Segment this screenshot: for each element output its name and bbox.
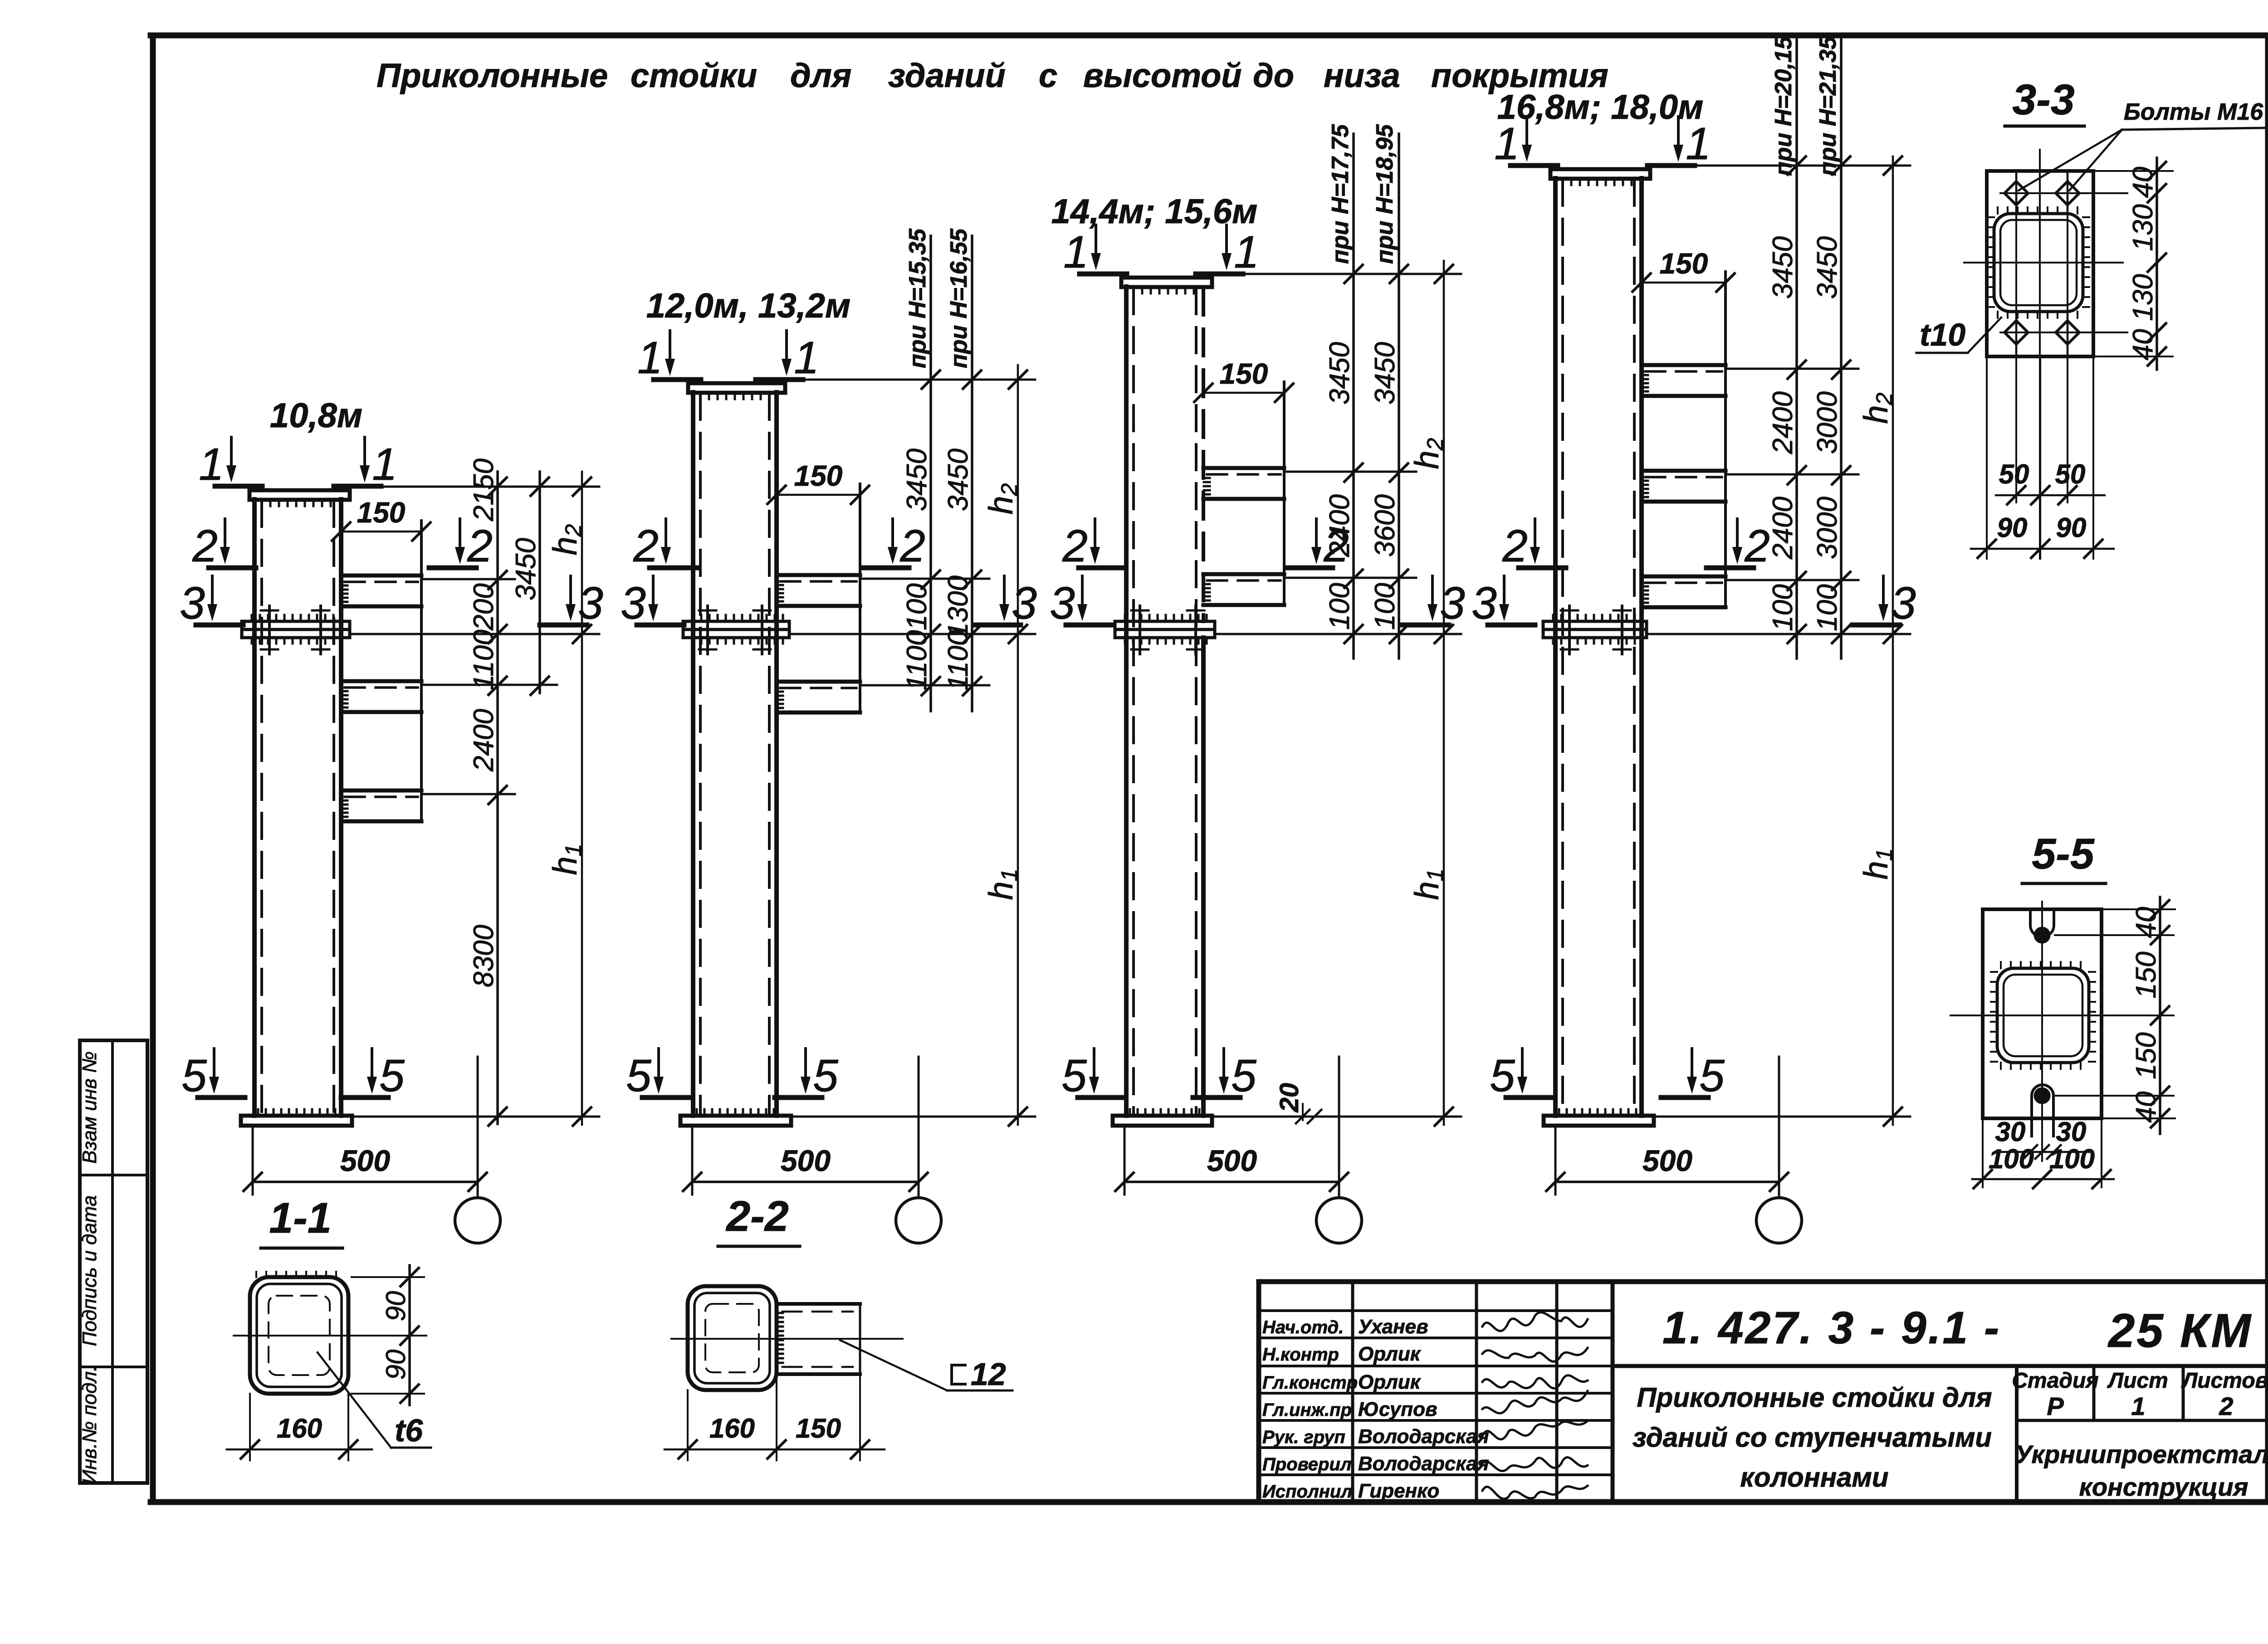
svg-text:3450: 3450 (943, 449, 974, 511)
column K4(16.8m) dimension line h1 h2 (1892, 156, 1894, 1125)
svg-text:5: 5 (813, 1050, 838, 1101)
svg-text:1300: 1300 (943, 576, 974, 638)
svg-text:100: 100 (1812, 584, 1843, 631)
section 5-5 base plate (1983, 909, 2102, 1118)
svg-text:2400: 2400 (1767, 497, 1799, 560)
svg-text:2: 2 (467, 521, 493, 571)
svg-text:Нач.отд.: Нач.отд. (1262, 1317, 1344, 1337)
svg-text:Проверил: Проверил (1262, 1454, 1352, 1474)
column K1(10.8m) section mark 5 (213, 1049, 215, 1079)
svg-text:5-5: 5-5 (2032, 830, 2094, 878)
svg-text:Исполнил: Исполнил (1262, 1482, 1352, 1502)
svg-text:3000: 3000 (1812, 497, 1843, 559)
section 3-3 extension lines (2093, 170, 2173, 172)
section 3-3 flange plate (1987, 171, 2093, 356)
column K2(12m) section mark 5 (804, 1049, 807, 1079)
svg-text:1: 1 (2131, 1392, 2145, 1420)
svg-text:3450: 3450 (1324, 342, 1355, 405)
svg-text:при Н=15,35: при Н=15,35 (904, 228, 931, 368)
column K1(10.8m) section mark 1 (363, 437, 366, 468)
svg-text:1100: 1100 (943, 630, 974, 690)
svg-text:Приколонные стойки для: Приколонные стойки для (1637, 1382, 1992, 1413)
column K1(10.8m) section mark 3 (569, 576, 572, 607)
svg-text:3: 3 (1012, 578, 1037, 629)
section 5-5 extension lines (2102, 908, 2175, 910)
column K1(10.8m) axis circle (455, 1198, 500, 1243)
column K2(12m) splice flange plates (683, 621, 789, 629)
column K1(10.8m) section mark 1 (230, 437, 233, 468)
column K4(16.8m) shaft left wall (1553, 178, 1558, 1116)
section 2-2 center line (671, 1338, 903, 1340)
column K1(10.8m) splice flange plates (242, 621, 350, 629)
svg-text:Листов: Листов (2181, 1369, 2268, 1393)
section 3-3 dims bottom 50 50 (1986, 356, 1988, 559)
svg-text:1: 1 (1494, 118, 1520, 169)
column K2(12m) section mark 5 (657, 1049, 660, 1079)
svg-text:1: 1 (637, 332, 663, 383)
svg-text:160: 160 (709, 1413, 755, 1444)
column K4(16.8m) dimension line 2 (1840, 39, 1843, 659)
section 3-3 dims right 40 130 130 40 (2156, 158, 2158, 370)
column K2(12m) section mark 2 (665, 519, 667, 550)
column K4(16.8m) section mark 3 (1882, 576, 1885, 607)
svg-text:стойки: стойки (631, 57, 757, 94)
svg-text:2: 2 (633, 521, 659, 571)
column K4(16.8m) splice flange plates (1543, 621, 1647, 629)
svg-text:Укрниипроектстал: Укрниипроектстал (2015, 1440, 2268, 1468)
svg-text:Приколонные: Приколонные (376, 57, 608, 94)
column K3(14.4m) dim 150 (1203, 392, 1284, 394)
title block signatures (1482, 1312, 1588, 1331)
column K4(16.8m) section mark 1 (1677, 117, 1680, 147)
section 1-1 dims right 90 90 (408, 1265, 411, 1405)
section 1-1 extension lines (352, 1276, 424, 1278)
svg-text:Стадия: Стадия (2012, 1369, 2098, 1393)
section 5-5 hole lines (2055, 934, 2174, 936)
svg-text:50: 50 (2055, 459, 2086, 489)
svg-text:Уханев: Уханев (1358, 1316, 1428, 1338)
column K3(14.4m) section mark 3 (1431, 576, 1434, 607)
svg-text:3450: 3450 (1812, 236, 1843, 299)
column K4(16.8m) axis circle (1756, 1198, 1802, 1243)
column K2(12m) cap plate (688, 383, 785, 393)
drawing frame border (150, 35, 156, 1502)
svg-text:1100: 1100 (901, 630, 933, 690)
svg-text:1: 1 (199, 439, 224, 490)
column K4(16.8m) dimension line 1 (1795, 39, 1798, 659)
column K3(14.4m) section mark 1 (1225, 225, 1228, 256)
column K4(16.8m) bracket 1 (1642, 363, 1725, 367)
column K4(16.8m) shaft right wall (1639, 178, 1644, 1116)
svg-text:500: 500 (781, 1144, 831, 1177)
svg-text:1-1: 1-1 (269, 1194, 331, 1242)
svg-text:Взам инв №: Взам инв № (78, 1051, 101, 1164)
column K3(14.4m) dimension line h1 h2 (1443, 261, 1445, 1125)
column K1(10.8m) bracket 2 (341, 679, 421, 683)
section 1-1 tube (250, 1277, 348, 1394)
side stamp boxes (80, 1040, 147, 1483)
svg-text:2: 2 (1744, 521, 1770, 571)
column K3(14.4m) dimension line 1 (1352, 134, 1355, 659)
section 5-5 bottom slot (2032, 1085, 2053, 1136)
column K1(10.8m) section mark 3 (211, 576, 214, 607)
section 5-5 dims bottom 100 100 (1982, 1118, 1984, 1187)
svg-text:2: 2 (899, 521, 925, 571)
svg-text:5: 5 (1699, 1050, 1725, 1101)
column K4(16.8m) splice bolts (1568, 606, 1571, 654)
svg-text:100: 100 (1324, 583, 1355, 629)
svg-text:1100: 1100 (468, 629, 499, 690)
column K4(16.8m) section mark 1 (1525, 117, 1528, 147)
svg-text:конструкция: конструкция (2079, 1473, 2248, 1501)
column K3(14.4m) base plate (1113, 1116, 1212, 1126)
column K4(16.8m) section mark 2 (1534, 519, 1536, 550)
column K2(12m) extension lines (785, 379, 1035, 381)
svg-text:12: 12 (971, 1356, 1006, 1392)
svg-text:3: 3 (578, 578, 603, 629)
section 5-5 tube (1997, 968, 2089, 1063)
svg-text:40: 40 (2131, 1092, 2162, 1123)
svg-text:100: 100 (1369, 583, 1401, 629)
svg-text:10,8м: 10,8м (270, 396, 362, 435)
column K3(14.4m) bracket 2 (1203, 572, 1284, 576)
svg-text:150: 150 (2131, 1032, 2162, 1079)
column K4(16.8m) cap plate (1550, 169, 1650, 179)
column K2(12m) dimension line 2 (971, 236, 973, 711)
column K3(14.4m) section mark 1 (1095, 225, 1097, 256)
section 3-3 bolts M16 (2004, 181, 2028, 205)
column K3(14.4m) bracket 1 (1203, 466, 1284, 470)
section 2-2 label channel 12 (952, 1365, 965, 1384)
svg-text:Лист: Лист (2107, 1369, 2168, 1393)
svg-text:3: 3 (180, 578, 205, 629)
section 1-1 dim bottom 160 (249, 1394, 251, 1460)
section 1-1 hidden wall dashes (269, 1296, 330, 1375)
svg-text:25 КМ: 25 КМ (2107, 1304, 2253, 1357)
svg-text:40: 40 (2127, 329, 2159, 361)
column K3 dim 20 (1302, 1104, 1304, 1120)
svg-text:при Н=20,15: при Н=20,15 (1770, 36, 1797, 176)
svg-text:2400: 2400 (468, 709, 499, 772)
svg-text:3000: 3000 (1812, 391, 1843, 454)
column K2(12m) base plate (680, 1116, 791, 1126)
column K2(12m) bracket 2 (777, 680, 860, 684)
title block row lines (1259, 1309, 1613, 1312)
column K1(10.8m) bracket 1 (341, 574, 421, 578)
column K1(10.8m) section mark 2 (224, 519, 226, 550)
svg-text:8300: 8300 (468, 925, 499, 987)
svg-text:150: 150 (1220, 357, 1268, 390)
svg-text:40: 40 (2131, 907, 2162, 938)
svg-text:высотой: высотой (1083, 57, 1242, 94)
column K3(14.4m) dim 500 and axis (1124, 1127, 1126, 1195)
svg-text:5: 5 (181, 1050, 207, 1101)
column K1(10.8m) bracket edge line (420, 521, 423, 821)
svg-text:t6: t6 (395, 1413, 423, 1448)
column K2(12m) section mark 1 (785, 331, 788, 361)
svg-text:2: 2 (1062, 521, 1088, 571)
column K4(16.8m) dim 500 and axis (1554, 1127, 1557, 1195)
svg-text:при Н=18,95: при Н=18,95 (1372, 124, 1398, 264)
svg-text:30: 30 (1995, 1117, 2026, 1147)
svg-text:40: 40 (2127, 167, 2159, 198)
svg-text:100: 100 (1989, 1144, 2034, 1174)
column K4(16.8m) bracket 2 (1642, 469, 1725, 473)
svg-text:200: 200 (468, 583, 499, 630)
svg-text:1: 1 (794, 332, 819, 383)
svg-text:при Н=21,35: при Н=21,35 (1815, 36, 1841, 176)
column K3(14.4m) section mark 2 (1094, 519, 1096, 550)
column K1(10.8m) shaft right wall (339, 499, 343, 1116)
svg-text:3450: 3450 (510, 538, 542, 600)
column K1(10.8m) section mark 5 (371, 1049, 373, 1079)
column K1(10.8m) dimension line 2 (538, 472, 541, 693)
column K1(10.8m) splice bolts (268, 606, 271, 654)
svg-text:90: 90 (1997, 512, 2028, 543)
svg-text:90: 90 (2056, 512, 2087, 543)
column K1(10.8m) bracket 3 (341, 789, 421, 793)
svg-text:30: 30 (2056, 1117, 2087, 1147)
column K2(12m) section mark 3 (1003, 576, 1006, 607)
column K2(12m) section mark 2 (891, 519, 894, 550)
column K1(10.8m) dimension line 1 (496, 472, 499, 1124)
column K2(12m) shaft right wall (774, 392, 779, 1116)
svg-text:Орлик: Орлик (1358, 1371, 1422, 1393)
svg-text:100: 100 (1767, 584, 1799, 631)
section 5-5 dims right 40 150 150 40 (2159, 897, 2161, 1134)
svg-text:3-3: 3-3 (2012, 76, 2074, 124)
svg-text:2: 2 (192, 521, 218, 571)
column K3(14.4m) section mark 5 (1222, 1049, 1225, 1079)
section 5-5 top slot (2030, 909, 2054, 937)
section 2-2 channel strut (777, 1302, 860, 1306)
column K2(12m) bracket edge line (859, 484, 861, 712)
svg-text:Рук. груп: Рук. груп (1262, 1427, 1345, 1447)
section 3-3 tube (1994, 214, 2083, 312)
svg-text:2400: 2400 (1767, 391, 1799, 454)
svg-text:12,0м, 13,2м: 12,0м, 13,2м (646, 287, 851, 325)
svg-text:Гиренко: Гиренко (1358, 1480, 1439, 1502)
column K1(10.8m) section mark 2 (459, 519, 461, 550)
column K2(12m) section mark 1 (669, 331, 671, 361)
svg-text:1: 1 (1063, 227, 1089, 278)
column K4(16.8m) extension lines (1650, 165, 1910, 167)
section 5-5 center lines (1950, 1015, 2174, 1016)
column K4(16.8m) bracket 3 (1642, 575, 1725, 579)
column K2(12m) dimension line 1 (929, 236, 932, 711)
section 2-2 dims bottom 160 150 (687, 1390, 689, 1460)
column K2(12m) section mark 3 (652, 576, 655, 607)
svg-text:20: 20 (1275, 1083, 1304, 1113)
svg-text:Володарская: Володарская (1358, 1453, 1489, 1475)
column K3(14.4m) shaft right wall (1202, 288, 1205, 621)
svg-text:50: 50 (1999, 459, 2029, 489)
svg-text:t10: t10 (1920, 317, 1965, 352)
svg-text:1: 1 (1686, 118, 1711, 169)
column K1(10.8m) extension lines (350, 486, 599, 488)
svg-text:3: 3 (1050, 578, 1075, 629)
section 1-1 center line (234, 1335, 426, 1337)
svg-text:1. 427. 3 - 9.1 -: 1. 427. 3 - 9.1 - (1662, 1303, 2001, 1353)
svg-text:Володарская: Володарская (1358, 1425, 1489, 1448)
svg-text:3: 3 (1440, 578, 1465, 629)
svg-text:Инв.№ подл.: Инв.№ подл. (78, 1366, 101, 1484)
column K2(12m) dim 150 (777, 494, 860, 496)
column K3(14.4m) section mark 3 (1081, 576, 1084, 607)
svg-text:1: 1 (372, 439, 397, 490)
column K4(16.8m) dim 150 (1642, 282, 1725, 284)
column K3(14.4m) axis circle (1316, 1198, 1362, 1243)
svg-text:5: 5 (1231, 1050, 1256, 1101)
title block outer border (1259, 1282, 2268, 1502)
svg-text:колоннами: колоннами (1740, 1462, 1888, 1493)
svg-text:150: 150 (796, 1413, 841, 1444)
column K3(14.4m) section mark 2 (1315, 519, 1318, 550)
column K3(14.4m) splice flange plates (1115, 621, 1215, 629)
column K3(14.4m) bracket edge line (1283, 382, 1286, 605)
svg-text:2: 2 (1502, 521, 1528, 571)
svg-text:500: 500 (1207, 1144, 1257, 1177)
svg-text:Орлик: Орлик (1358, 1343, 1422, 1365)
svg-text:3: 3 (1891, 578, 1916, 629)
svg-text:3450: 3450 (901, 449, 933, 511)
column K4(16.8m) section mark 5 (1691, 1049, 1693, 1079)
section 2-2 tube (688, 1286, 777, 1390)
column K3(14.4m) splice bolts (1139, 606, 1141, 654)
column K1(10.8m) cap plate (249, 490, 350, 500)
column K3(14.4m) dimension line 2 (1398, 134, 1400, 659)
svg-text:90: 90 (381, 1291, 411, 1322)
column K2(12m) axis circle (896, 1198, 941, 1243)
svg-text:150: 150 (1660, 247, 1708, 280)
column K4(16.8m) bracket edge line (1724, 272, 1727, 607)
svg-text:Гл.инж.пр: Гл.инж.пр (1262, 1400, 1352, 1420)
svg-text:Болты М16: Болты М16 (2124, 99, 2263, 125)
section 5-5 dims bottom 30 30 (1997, 1151, 2091, 1153)
svg-text:Юсупов: Юсупов (1358, 1398, 1437, 1420)
svg-text:зданий со ступенчатыми: зданий со ступенчатыми (1633, 1422, 1992, 1453)
column K4(16.8m) section mark 5 (1521, 1049, 1524, 1079)
column K1(10.8m) shaft left wall (252, 499, 257, 1116)
svg-text:Подпись и дата: Подпись и дата (78, 1195, 101, 1346)
svg-text:при Н=17,75: при Н=17,75 (1327, 124, 1354, 264)
section 3-3 center lines (1964, 262, 2123, 263)
svg-text:зданий: зданий (888, 57, 1006, 94)
svg-text:5: 5 (1490, 1050, 1515, 1101)
column K1(10.8m) dim 500 and axis (252, 1127, 254, 1195)
svg-text:100: 100 (2049, 1144, 2095, 1174)
svg-text:2-2: 2-2 (725, 1192, 788, 1240)
svg-text:3: 3 (1471, 578, 1497, 629)
column K4(16.8m) base plate (1544, 1116, 1654, 1126)
svg-text:150: 150 (357, 496, 406, 529)
column K2(12m) dim 500 and axis (691, 1127, 694, 1195)
svg-text:5: 5 (1061, 1050, 1087, 1101)
section 3-3 bolt row lines (2000, 192, 2127, 194)
column K3(14.4m) section mark 5 (1093, 1049, 1095, 1079)
svg-text:3: 3 (621, 578, 646, 629)
column K3(14.4m) shaft left wall (1124, 287, 1129, 1116)
column K4(16.8m) section mark 3 (1503, 576, 1505, 607)
column K3(14.4m) extension lines (1212, 273, 1461, 275)
svg-text:при Н=16,55: при Н=16,55 (946, 228, 972, 368)
svg-text:5: 5 (379, 1050, 405, 1101)
svg-text:90: 90 (381, 1350, 411, 1380)
svg-text:500: 500 (340, 1144, 390, 1177)
svg-text:с: с (1039, 57, 1057, 94)
title block right area lines (1613, 1364, 2268, 1368)
column K2(12m) bracket 1 (777, 573, 860, 577)
section 3-3 dims bottom 90 90 (1971, 548, 2114, 550)
column K2(12m) dimension line h1 h2 (1017, 365, 1019, 1125)
svg-text:130: 130 (2127, 274, 2159, 321)
svg-text:2: 2 (1323, 521, 1349, 571)
svg-text:2150: 2150 (468, 459, 499, 522)
svg-text:160: 160 (277, 1413, 322, 1444)
svg-text:500: 500 (1642, 1144, 1692, 1177)
svg-text:низа: низа (1324, 57, 1400, 94)
column K4(16.8m) section mark 2 (1736, 519, 1739, 550)
svg-text:100: 100 (901, 583, 933, 630)
svg-text:2: 2 (2219, 1392, 2233, 1420)
svg-text:до: до (1253, 57, 1294, 94)
column K2(12m) splice bolts (706, 606, 709, 654)
title block vertical dividers (1351, 1282, 1354, 1502)
svg-text:5: 5 (626, 1050, 651, 1101)
svg-text:1: 1 (1234, 227, 1259, 278)
svg-text:Н.контр: Н.контр (1262, 1345, 1339, 1365)
section 2-2 hidden wall dashes (705, 1304, 759, 1372)
column K3(14.4m) cap plate (1121, 278, 1212, 287)
column K1(10.8m) base plate (241, 1116, 352, 1126)
svg-text:3600: 3600 (1369, 494, 1401, 557)
svg-text:150: 150 (794, 459, 843, 492)
column K1(10.8m) dim 150 (341, 531, 421, 533)
svg-text:3450: 3450 (1767, 236, 1799, 299)
column K1(10.8m) dimension line h1 h2 (581, 472, 583, 1125)
svg-text:для: для (790, 57, 851, 94)
svg-text:3450: 3450 (1369, 342, 1401, 405)
svg-text:Р: Р (2047, 1392, 2064, 1420)
svg-text:150: 150 (2131, 951, 2162, 998)
svg-text:130: 130 (2127, 204, 2159, 251)
column K2(12m) shaft left wall (691, 392, 695, 1116)
svg-text:Гл.констр: Гл.констр (1262, 1373, 1358, 1393)
